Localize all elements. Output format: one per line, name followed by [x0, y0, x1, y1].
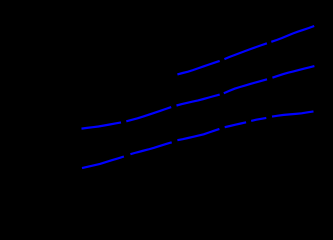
dashed curve: series 2 (middle curve)	[82, 66, 315, 129]
dashed curve: series 1 (top curve)	[177, 26, 314, 74]
dashed curve: series 3 (bottom curve)	[82, 111, 314, 168]
